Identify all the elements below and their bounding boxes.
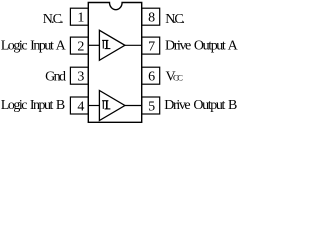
svg-text:N.C.: N.C. (165, 12, 185, 27)
svg-text:1: 1 (77, 11, 84, 26)
svg-text:Gnd: Gnd (45, 70, 66, 85)
svg-text:Logic Input B: Logic Input B (1, 98, 65, 113)
svg-text:Logic Input A: Logic Input A (1, 38, 67, 53)
svg-text:4: 4 (77, 99, 84, 114)
svg-text:N.C.: N.C. (43, 12, 64, 27)
svg-text:3: 3 (77, 70, 84, 85)
svg-text:Drive Output A: Drive Output A (165, 38, 239, 53)
svg-text:7: 7 (148, 40, 155, 55)
svg-text:2: 2 (77, 40, 84, 55)
svg-text:C: C (177, 72, 183, 82)
svg-text:Drive Output B: Drive Output B (164, 98, 237, 113)
svg-text:6: 6 (148, 70, 155, 85)
svg-text:8: 8 (148, 11, 155, 26)
svg-text:5: 5 (148, 99, 155, 114)
